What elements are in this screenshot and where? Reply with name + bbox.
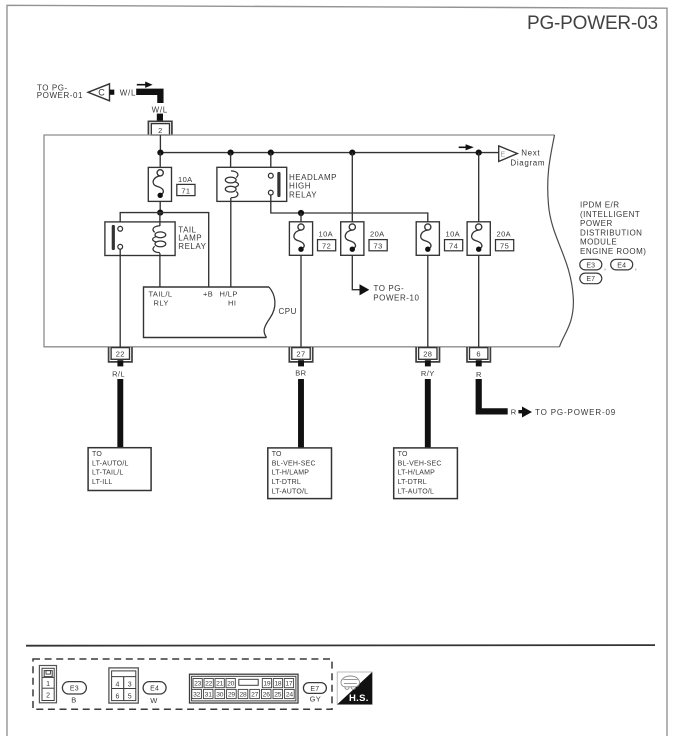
svg-text:26: 26	[263, 692, 271, 699]
svg-text:10A: 10A	[178, 175, 193, 184]
thick wire R/L	[117, 379, 123, 448]
svg-text:R: R	[511, 408, 517, 417]
svg-text:BR: BR	[295, 368, 306, 377]
fuse 75 20A	[467, 153, 514, 348]
svg-text:,: ,	[635, 265, 637, 272]
svg-text:10A: 10A	[319, 230, 334, 239]
svg-text:R: R	[476, 370, 482, 379]
svg-text:TO: TO	[398, 451, 408, 458]
svg-text:W/L: W/L	[152, 105, 168, 114]
connector 2 (IPDM terminal)	[148, 121, 172, 135]
legend oval E4 with color W	[143, 682, 166, 706]
svg-text:LT-DTRL: LT-DTRL	[272, 479, 301, 486]
svg-text:MODULE: MODULE	[580, 238, 617, 247]
svg-text:28: 28	[423, 350, 432, 359]
destination box TO BL-VEH-SEC LT-H/LAMP LT-DTRL LT-AUTO/L (left)	[268, 448, 332, 499]
svg-text:E7: E7	[310, 686, 319, 693]
connector ref E3 oval	[580, 259, 606, 271]
svg-text:R/Y: R/Y	[421, 369, 435, 378]
destination box TO BL-VEH-SEC LT-H/LAMP LT-DTRL LT-AUTO/L (right)	[394, 448, 458, 499]
svg-text:TO PG-POWER-09: TO PG-POWER-09	[535, 408, 616, 417]
svg-text:+B: +B	[203, 289, 213, 298]
fuse 72 10A	[289, 213, 335, 347]
next diagram arrow E	[499, 146, 545, 168]
svg-text:H.S.: H.S.	[349, 693, 369, 704]
wire from connector 2 to bus	[159, 135, 161, 153]
node: junction above fuse 72	[298, 210, 304, 216]
svg-text:Diagram: Diagram	[510, 158, 545, 167]
svg-text:20: 20	[227, 681, 235, 688]
svg-text:24: 24	[286, 692, 294, 699]
svg-text:LT-TAIL/L: LT-TAIL/L	[92, 470, 124, 477]
svg-text:ENGINE ROOM): ENGINE ROOM)	[580, 247, 646, 256]
connector ref E4 oval	[611, 259, 637, 271]
svg-text:21: 21	[216, 681, 224, 688]
connector 28 (IPDM output)	[416, 347, 439, 366]
thick wire R elbow	[479, 379, 508, 411]
wire fuse 73 to PG-POWER-10 arrow	[352, 255, 359, 289]
thick wire R/Y	[425, 379, 431, 448]
svg-text:28: 28	[239, 692, 247, 699]
IPDM E/R name note	[580, 201, 646, 257]
svg-text:RLY: RLY	[154, 298, 169, 307]
thick wire W/L elbow into connector 2	[136, 92, 160, 122]
legend connector E3 (2-pin)	[39, 666, 56, 703]
svg-text:Next: Next	[521, 148, 540, 157]
svg-text:LT-H/LAMP: LT-H/LAMP	[272, 470, 310, 477]
connector ref E7 oval	[580, 273, 602, 284]
svg-text:LT-AUTO/L: LT-AUTO/L	[398, 489, 435, 496]
svg-text:(INTELLIGENT: (INTELLIGENT	[580, 210, 640, 219]
fuse 71 10A	[148, 153, 195, 213]
svg-text:LT-DTRL: LT-DTRL	[398, 479, 427, 486]
tail lamp relay	[105, 213, 207, 348]
svg-text:TO: TO	[272, 451, 282, 458]
svg-text:BL-VEH-SEC: BL-VEH-SEC	[398, 460, 442, 467]
CPU box	[144, 287, 297, 338]
legend oval E3 with color B	[62, 682, 86, 705]
svg-text:CPU: CPU	[279, 307, 297, 316]
svg-text:LT-AUTO/L: LT-AUTO/L	[272, 489, 309, 496]
node: bus junction at fuse 75	[476, 150, 482, 156]
headlamp high relay	[217, 153, 337, 287]
direction arrow on W/L wire	[137, 82, 153, 88]
svg-text:E3: E3	[586, 262, 595, 269]
fuse 73 20A	[341, 153, 388, 256]
off-page arrow TO PG-POWER-10	[360, 284, 420, 302]
svg-text:1: 1	[46, 681, 50, 688]
svg-text:GY: GY	[310, 695, 322, 704]
svg-text:RELAY: RELAY	[289, 191, 317, 200]
svg-text:18: 18	[274, 681, 282, 688]
svg-text:4: 4	[116, 682, 120, 689]
off-page arrow TO PG-POWER-09	[511, 407, 616, 418]
node: junction below fuse 71	[157, 210, 163, 216]
svg-text:72: 72	[322, 242, 331, 251]
legend connector E7 (16-pin)	[190, 674, 299, 703]
svg-text:25: 25	[274, 692, 282, 699]
legend E7 pins row 1	[193, 679, 294, 688]
svg-text:LT-ILL: LT-ILL	[92, 479, 113, 486]
svg-text:LT-AUTO/L: LT-AUTO/L	[92, 460, 129, 467]
svg-text:RELAY: RELAY	[178, 242, 206, 251]
IPDM E/R enclosure box	[44, 135, 573, 347]
svg-text:30: 30	[216, 692, 224, 699]
svg-text:29: 29	[228, 692, 236, 699]
svg-text:R/L: R/L	[112, 369, 125, 378]
svg-text:2: 2	[158, 126, 163, 135]
W/L power bus wire	[160, 152, 498, 154]
footer separator line	[26, 644, 655, 647]
svg-text:2: 2	[46, 693, 50, 700]
svg-text:74: 74	[449, 242, 458, 251]
svg-text:20A: 20A	[497, 230, 512, 239]
svg-text:31: 31	[205, 692, 213, 699]
connector 22 (IPDM output)	[109, 347, 132, 366]
svg-text:E4: E4	[617, 262, 626, 269]
svg-text:32: 32	[193, 692, 201, 699]
legend oval E7 with color GY	[303, 683, 326, 704]
connector 6 (IPDM output)	[467, 347, 490, 366]
node: bus junction at relay contact	[268, 150, 274, 156]
node: bus junction at fuse 73	[349, 150, 355, 156]
svg-text:E3: E3	[70, 685, 79, 692]
destination box TO LT-AUTO/L LT-TAIL/L LT-ILL	[88, 448, 151, 491]
wire fuse71 junction to tail lamp relay contact and +B	[120, 213, 209, 287]
connector 27 (IPDM output)	[289, 347, 312, 366]
svg-text:TO: TO	[92, 451, 102, 458]
svg-text:HEADLAMP: HEADLAMP	[289, 173, 337, 182]
svg-text:22: 22	[116, 350, 125, 359]
svg-text:LT-H/LAMP: LT-H/LAMP	[398, 470, 436, 477]
svg-text:C: C	[98, 88, 105, 98]
svg-text:73: 73	[374, 242, 383, 251]
svg-text:17: 17	[285, 681, 293, 688]
svg-text:DISTRIBUTION: DISTRIBUTION	[580, 228, 642, 237]
svg-text:B: B	[71, 696, 76, 705]
legend connector E4 (4-pin)	[109, 668, 138, 703]
svg-text:22: 22	[205, 681, 213, 688]
svg-text:,: ,	[604, 265, 606, 272]
svg-text:3: 3	[128, 682, 132, 689]
svg-text:5: 5	[128, 693, 132, 700]
svg-text:23: 23	[194, 681, 202, 688]
svg-text:PG-POWER-03: PG-POWER-03	[527, 13, 658, 34]
svg-text:POWER-10: POWER-10	[373, 293, 419, 302]
wire relay contact to fuses 72/74	[271, 195, 428, 222]
legend dashed box	[33, 659, 332, 709]
svg-text:E: E	[501, 152, 506, 159]
svg-text:TAIL/L: TAIL/L	[149, 289, 173, 298]
svg-text:20A: 20A	[370, 230, 385, 239]
fuse 74 10A	[416, 222, 463, 347]
svg-text:IPDM E/R: IPDM E/R	[580, 201, 620, 210]
node: bus junction at fuse 71	[157, 150, 163, 156]
legend E7 pins row 2	[192, 689, 294, 698]
svg-text:W: W	[150, 696, 158, 705]
H.S. logo	[337, 672, 372, 704]
svg-text:TO PG-: TO PG-	[374, 284, 405, 293]
node: bus junction at relay coil	[228, 150, 234, 156]
thick wire BR	[298, 379, 304, 448]
svg-text:POWER: POWER	[580, 219, 613, 228]
svg-text:POWER-01: POWER-01	[37, 91, 83, 100]
svg-text:E7: E7	[586, 276, 595, 283]
svg-text:10A: 10A	[446, 230, 461, 239]
svg-text:BL-VEH-SEC: BL-VEH-SEC	[272, 460, 316, 467]
svg-text:W/L: W/L	[120, 88, 136, 97]
svg-text:71: 71	[181, 186, 190, 195]
svg-text:H/LP: H/LP	[220, 289, 238, 298]
svg-text:27: 27	[251, 692, 259, 699]
svg-text:HI: HI	[228, 298, 236, 307]
svg-text:75: 75	[500, 242, 509, 251]
svg-text:6: 6	[476, 350, 481, 359]
direction arrow on bus	[459, 144, 474, 150]
svg-text:HIGH: HIGH	[289, 182, 311, 191]
svg-text:19: 19	[263, 681, 271, 688]
svg-text:6: 6	[116, 693, 120, 700]
svg-text:27: 27	[296, 350, 305, 359]
svg-text:E4: E4	[150, 685, 159, 692]
off-page connector C to PG-POWER-01	[37, 84, 115, 101]
